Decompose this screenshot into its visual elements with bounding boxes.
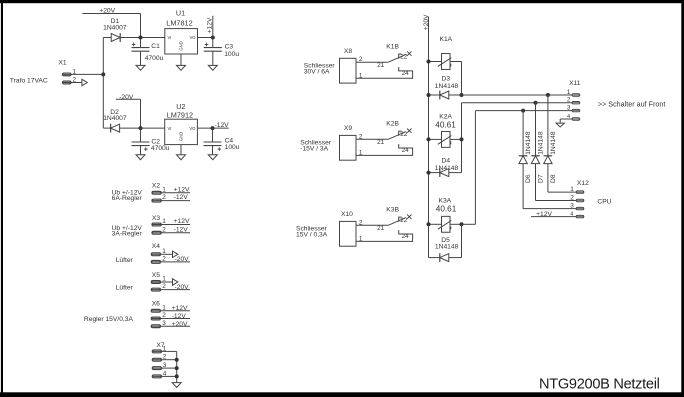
wire U1 GND to ground: [180, 54, 182, 65]
svg-text:1N4148: 1N4148: [435, 83, 459, 90]
X12 pin 4 / net +12V: [531, 211, 584, 218]
svg-text:4700u: 4700u: [145, 55, 164, 62]
svg-text:100u: 100u: [225, 144, 240, 151]
svg-text:X11: X11: [569, 80, 581, 87]
svg-text:40.61: 40.61: [436, 205, 457, 214]
wire D6 branch: [523, 111, 576, 209]
svg-text:1: 1: [359, 72, 363, 79]
svg-text:GND: GND: [179, 41, 184, 50]
svg-text:>> Schalter auf Front: >> Schalter auf Front: [598, 100, 666, 109]
X5 pin 2 / net -20V: [151, 283, 190, 291]
X11 pin 3: [567, 105, 580, 112]
ground below U1: [177, 65, 186, 70]
svg-text:+20V: +20V: [99, 7, 115, 14]
svg-text:30V / 6A: 30V / 6A: [304, 69, 330, 76]
svg-text:X3: X3: [152, 215, 160, 222]
wire U1 output: [198, 37, 213, 39]
node X7 junction pin3: [175, 366, 179, 370]
svg-text:VO: VO: [189, 126, 196, 131]
svg-text:D4: D4: [442, 157, 451, 164]
svg-text:K2B: K2B: [386, 121, 399, 128]
svg-text:1N4007: 1N4007: [103, 25, 127, 32]
X10 pin 2 wire: [356, 219, 388, 226]
relay contact K1B blade pin 21: [377, 44, 406, 70]
X7 pin 2: [152, 354, 176, 361]
connector X11: [569, 80, 581, 87]
X2 pin 1 / net +12V: [152, 186, 190, 194]
wire K2A junction vertical: [461, 103, 463, 173]
connector X8: [340, 48, 357, 83]
node D3/K1A junction: [460, 93, 464, 97]
svg-text:+12V: +12V: [536, 211, 552, 218]
svg-text:NTG9200B Netzteil: NTG9200B Netzteil: [539, 377, 660, 393]
label Schliesser / 15V / 0,3A: [296, 226, 328, 239]
svg-text:-20V: -20V: [175, 256, 190, 263]
X10 pin 1 wire: [359, 235, 363, 242]
node D8 tap: [546, 93, 550, 97]
svg-text:2: 2: [570, 195, 574, 202]
wire K3A output to X11 pin 3: [475, 110, 572, 112]
svg-text:40.61: 40.61: [435, 121, 456, 130]
node U2 out junction: [211, 126, 215, 130]
X12 pin 2: [570, 195, 584, 202]
svg-text:+12V: +12V: [172, 305, 188, 312]
svg-text:1: 1: [359, 149, 363, 156]
connector X1 Trafo 17VAC: [10, 59, 104, 85]
svg-text:D6: D6: [525, 174, 532, 183]
ground below C3: [208, 65, 217, 70]
wire K1A to D3 line: [461, 62, 463, 96]
X4 pin 2 / net -20V: [151, 256, 190, 264]
diode D5 1N4148: [429, 237, 462, 262]
svg-text:X2: X2: [152, 182, 160, 189]
capacitor C3 100u: [204, 38, 240, 66]
svg-text:+20V: +20V: [423, 14, 430, 30]
ground below C4: [208, 155, 217, 160]
svg-text:24: 24: [402, 147, 410, 154]
node D1 cathode / C1 / U1 input junction: [139, 36, 143, 40]
svg-text:LM7912: LM7912: [167, 111, 193, 120]
svg-text:U1: U1: [176, 8, 185, 17]
K1B contact 24 terminal: [356, 67, 413, 78]
net +20V vertical rail: [423, 14, 430, 258]
svg-text:1N4148: 1N4148: [550, 131, 557, 155]
connector X5: [152, 272, 160, 279]
net -20V rail: [116, 94, 141, 101]
connector X4: [152, 243, 160, 250]
wire X1 to D1/D2 vertical: [102, 38, 104, 129]
ground below C1: [136, 65, 145, 70]
node X7 junction pin2: [175, 358, 179, 362]
X12 pin 1: [570, 186, 584, 193]
svg-text:1: 1: [359, 235, 363, 242]
X7 pin 4: [152, 370, 176, 377]
svg-text:X4: X4: [152, 243, 160, 250]
K1B contact 22 terminal with X: [399, 51, 412, 60]
label Schliesser / 30V / 6A: [304, 63, 336, 76]
node rail/K1A: [427, 60, 431, 64]
wire K3A to D5: [461, 224, 463, 257]
diode D4 1N4148: [429, 157, 462, 177]
svg-text:K2A: K2A: [439, 114, 452, 121]
label Schliesser / -15V / 3A: [300, 140, 332, 153]
wire K2A output to X11 pin 2: [462, 102, 573, 104]
node X7 junction pin4: [175, 374, 179, 378]
connector X6: [152, 301, 160, 308]
K3B contact 22 terminal with X: [399, 215, 412, 224]
svg-text:K3B: K3B: [386, 207, 399, 214]
diode D2 1N4007: [103, 109, 165, 133]
X12 pin 3: [570, 203, 584, 210]
relay coil K1A: [429, 36, 462, 69]
relay contact K3B blade pin 21: [377, 207, 406, 233]
svg-text:3: 3: [567, 105, 571, 112]
X2 pin 2 / net -12V: [152, 194, 190, 202]
svg-text:22: 22: [400, 131, 408, 138]
X11 pin 4 to ground: [560, 114, 580, 123]
svg-text:-12V: -12V: [174, 226, 189, 233]
svg-text:24: 24: [402, 233, 410, 240]
svg-text:1N4148: 1N4148: [525, 131, 532, 155]
X5 pin 1 with arrow: [151, 276, 178, 286]
node X1 junction: [101, 72, 105, 76]
connector X10: [340, 211, 357, 246]
diode D6 1N4148: [519, 131, 532, 183]
svg-text:VI: VI: [168, 126, 172, 131]
ground below X7: [172, 383, 181, 388]
svg-text:22: 22: [400, 217, 408, 224]
svg-text:X6: X6: [152, 301, 160, 308]
svg-text:1: 1: [567, 89, 571, 96]
svg-text:LM7812: LM7812: [166, 18, 192, 27]
wire D8 branch: [548, 95, 577, 192]
svg-text:-12V: -12V: [172, 313, 187, 320]
svg-text:21: 21: [377, 139, 385, 146]
connector X3: [152, 215, 160, 222]
connector X2: [152, 182, 160, 189]
X6 pin 1 / net +12V: [151, 304, 190, 312]
svg-text:D3: D3: [442, 75, 451, 82]
wire U2 GND to ground: [180, 145, 182, 155]
net +12V vertical label: [207, 16, 214, 38]
svg-text:22: 22: [400, 54, 408, 61]
svg-text:X8: X8: [344, 48, 352, 55]
X9 pin 2 wire: [356, 133, 388, 140]
label Regler 15V/0,3A: [84, 316, 134, 323]
svg-text:3: 3: [570, 203, 574, 210]
X7 pin 1: [152, 345, 176, 352]
K2B contact 24 terminal: [356, 144, 413, 155]
ground at X11 pin 4: [556, 123, 564, 127]
svg-text:-20V: -20V: [119, 94, 134, 101]
label Luefter 2: [116, 285, 134, 292]
svg-text:1N4007: 1N4007: [103, 115, 127, 122]
ground below U2: [177, 155, 186, 160]
label Ub +/-12V 3A-Regler: [112, 225, 143, 237]
label Ub +/-12V 6A-Regler: [112, 189, 143, 202]
op-amp U1 LM7812 regulator: [165, 8, 198, 54]
svg-text:2: 2: [567, 97, 571, 104]
svg-text:24: 24: [402, 70, 410, 77]
svg-text:Lüfter: Lüfter: [116, 285, 134, 292]
X9 pin 1 wire: [359, 149, 363, 156]
svg-text:X1: X1: [58, 59, 66, 66]
label Schalter auf Front: [598, 100, 666, 109]
K3B contact 24 terminal: [356, 230, 413, 241]
relay coil K3A 40.61: [429, 198, 462, 233]
capacitor C4 100u: [204, 128, 240, 155]
svg-text:GND: GND: [179, 132, 184, 141]
node rail/D4: [427, 171, 431, 175]
title NTG9200B Netzteil: [539, 377, 660, 393]
svg-text:21: 21: [377, 225, 385, 232]
svg-text:Trafo 17VAC: Trafo 17VAC: [10, 78, 48, 85]
svg-text:X9: X9: [344, 125, 352, 132]
node rail/D3: [427, 93, 431, 97]
X4 pin 1 with arrow: [151, 248, 178, 258]
ground below C2: [136, 155, 145, 160]
wire X7 common vertical: [176, 351, 178, 382]
svg-text:100u: 100u: [224, 51, 239, 58]
wire +20V drop to D1 output: [140, 14, 142, 38]
node D6 tap: [521, 109, 525, 113]
svg-text:-12V: -12V: [215, 122, 230, 129]
X8 pin 2 wire: [356, 56, 388, 63]
node D7 tap: [534, 101, 538, 105]
relay contact K2B blade pin 21: [377, 121, 406, 147]
svg-text:-20V: -20V: [175, 284, 190, 291]
svg-text:K1B: K1B: [386, 44, 399, 51]
wire K3A output tap: [462, 111, 476, 225]
node rail/K3A: [427, 222, 431, 226]
X7 pin 3: [152, 362, 176, 369]
node D2 anode / C2 / U2 input junction: [139, 126, 143, 130]
svg-text:3A-Regler: 3A-Regler: [112, 230, 143, 237]
svg-text:K3A: K3A: [439, 198, 452, 205]
diode D1 1N4007: [103, 18, 165, 42]
connector X12: [577, 180, 589, 187]
wire -20V drop to D2 output: [140, 99, 142, 128]
svg-text:+12V: +12V: [174, 218, 190, 225]
svg-text:C3: C3: [225, 43, 234, 50]
wire U2 output / net -12V: [197, 122, 229, 129]
K2B contact 22 terminal with X: [399, 129, 412, 138]
svg-text:6A-Regler: 6A-Regler: [112, 195, 143, 202]
svg-text:-12V: -12V: [174, 194, 189, 201]
X6 pin 3 / net +20V: [151, 320, 190, 328]
svg-text:X10: X10: [341, 211, 353, 218]
X3 pin 1 / net +12V: [152, 218, 190, 226]
relay coil K2A 40.61: [429, 114, 462, 148]
X8 pin 1 wire: [359, 72, 363, 79]
connector X9: [340, 125, 357, 160]
svg-text:+12V: +12V: [207, 17, 214, 33]
X3 pin 2 / net -12V: [152, 226, 190, 234]
diode D8 1N4148: [544, 131, 557, 183]
svg-text:15V / 0,3A: 15V / 0,3A: [296, 232, 328, 239]
svg-text:Lüfter: Lüfter: [116, 257, 134, 264]
svg-text:21: 21: [377, 62, 385, 69]
svg-text:VO: VO: [190, 35, 197, 40]
connector X7: [156, 342, 164, 349]
svg-text:-15V / 3A: -15V / 3A: [300, 146, 328, 153]
X11 pin 1: [567, 89, 580, 96]
diode D3 1N4148: [429, 75, 462, 99]
svg-text:K1A: K1A: [440, 36, 453, 43]
node K2A coil junction: [460, 137, 464, 141]
net +20V rail top: [82, 7, 140, 14]
svg-text:D7: D7: [538, 174, 545, 183]
label CPU: [597, 198, 611, 205]
svg-text:+20V: +20V: [172, 321, 188, 328]
X11 pin 2: [567, 97, 580, 104]
op-amp U2 LM7912 regulator: [165, 102, 198, 145]
svg-text:1N4148: 1N4148: [435, 244, 459, 251]
node U1 out junction: [211, 36, 215, 40]
svg-text:CPU: CPU: [597, 198, 611, 205]
svg-text:X5: X5: [152, 272, 160, 279]
capacitor C2 4700u: [132, 128, 170, 155]
svg-text:1: 1: [570, 186, 574, 193]
svg-text:C1: C1: [151, 43, 160, 50]
svg-text:D8: D8: [550, 174, 557, 183]
svg-text:Regler 15V/0,3A: Regler 15V/0,3A: [84, 316, 134, 323]
svg-text:+12V: +12V: [174, 186, 190, 193]
X6 pin 2 / net -12V: [151, 312, 190, 320]
svg-text:VI: VI: [168, 35, 172, 40]
capacitor C1 4700u: [132, 38, 164, 66]
diode D7 1N4148: [531, 131, 544, 183]
label Luefter 1: [116, 257, 134, 264]
node rail/K2A: [427, 137, 431, 141]
svg-text:1N4148: 1N4148: [537, 131, 544, 155]
wire D7 branch: [536, 103, 577, 201]
svg-text:4700u: 4700u: [151, 145, 170, 152]
wire K1A output to X11 pin 1: [462, 94, 573, 96]
svg-text:X12: X12: [577, 180, 589, 187]
node K3A coil junction: [460, 222, 464, 226]
